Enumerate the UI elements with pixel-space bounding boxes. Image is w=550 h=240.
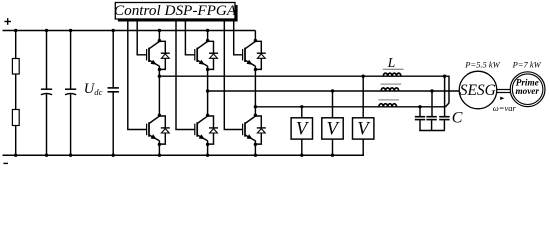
voltage sensor V1 tap wire <box>301 107 303 118</box>
voltage sensor V3 tap wire <box>362 76 364 118</box>
inductor L3 coil <box>379 104 397 107</box>
control box <box>115 3 235 20</box>
gate wire leg1 top IGBT <box>137 19 146 55</box>
voltage sensor V2 box <box>322 118 343 139</box>
inductor L2 core bar <box>381 83 402 85</box>
phase line C <box>255 106 445 108</box>
IGBT Q2 leg 2 top <box>195 42 208 70</box>
capacitor bank star bar <box>419 130 445 132</box>
L label <box>387 55 396 70</box>
omega=var label <box>493 103 517 113</box>
inductor L1 core bar <box>383 68 404 70</box>
leg 1 upper wire <box>158 31 160 41</box>
film capacitor 3 <box>108 87 119 89</box>
generator convergence bar <box>448 76 450 104</box>
svg-text:SESG: SESG <box>460 82 496 99</box>
excitation capacitor bank <box>415 76 450 130</box>
leg 2 junction dots <box>206 29 209 157</box>
shaft coupling <box>497 90 511 93</box>
diode D5 leg 2 bottom <box>208 116 218 144</box>
inductor L3 core bar <box>378 99 399 101</box>
P=5.5 kW label <box>464 60 500 70</box>
IGBT Q4 leg 1 bottom <box>147 116 160 144</box>
svg-text:C: C <box>452 109 463 126</box>
svg-text:P=5.5 kW: P=5.5 kW <box>464 60 500 70</box>
SESG label <box>460 82 496 99</box>
balancing resistor branch wire <box>15 31 17 156</box>
capacitor bank tap wire 1 <box>419 107 421 116</box>
junction dots resistor branch <box>14 29 17 157</box>
electrolytic capacitor branch 1 wire <box>46 31 48 89</box>
inductor L2 coil <box>381 88 399 91</box>
capacitor bank tap wire 2 <box>431 91 433 116</box>
svg-text:mover: mover <box>515 86 539 96</box>
voltage sensor V3 box <box>353 118 374 139</box>
filter inductors <box>378 69 403 107</box>
inductor L1 coil <box>383 73 401 76</box>
leg 1 lower wire <box>158 144 160 155</box>
SESG generator <box>459 71 497 109</box>
phase line C rise to generator <box>446 103 450 107</box>
phase line A <box>159 75 449 77</box>
excitation capacitor 3 <box>439 116 449 118</box>
voltage sensor V1 box <box>291 118 312 139</box>
IGBT Q3 leg 3 top <box>243 42 256 70</box>
voltage sensors <box>291 76 374 155</box>
voltage sensor V2 bottom wire <box>332 139 334 155</box>
C label <box>452 109 463 126</box>
excitation capacitor 2 <box>426 116 436 118</box>
film capacitor branch 3 wire <box>112 31 114 88</box>
gate wire leg1 bottom IGBT <box>128 19 147 130</box>
Udc label <box>84 81 103 97</box>
diode D4 leg 1 bottom <box>159 116 169 144</box>
junction dots capacitor 2 <box>69 29 72 157</box>
junction dots capacitor 1 <box>45 29 48 157</box>
DC bus negative rail <box>3 154 365 156</box>
prime mover label <box>515 77 539 96</box>
prime mover outer circle <box>510 72 545 107</box>
leg 3 junction dots <box>254 39 257 157</box>
voltage sensor V3 bottom wire <box>362 139 364 155</box>
electrolytic capacitor branch 2 wire <box>70 31 72 89</box>
junction dots capacitor 3 <box>112 29 115 157</box>
diode D2 leg 2 top <box>208 41 218 69</box>
control box title <box>114 2 237 19</box>
leg 3 upper wire <box>254 31 256 41</box>
leg 3 lower wire <box>254 144 256 155</box>
gate wire leg3 top IGBT <box>234 19 243 55</box>
minus terminal label <box>3 162 8 164</box>
P=7 kW label <box>512 60 542 70</box>
leg 3 middle wire <box>254 70 256 116</box>
svg-text:Control DSP-FPGA: Control DSP-FPGA <box>114 2 237 19</box>
electrolytic capacitor 1 <box>41 88 52 90</box>
leg 2 upper wire <box>207 31 209 41</box>
svg-text:ω=var: ω=var <box>493 103 517 113</box>
IGBT Q5 leg 2 bottom <box>195 116 208 144</box>
voltage sensor V1 bottom wire <box>301 139 303 155</box>
control box shadow <box>118 5 238 22</box>
rotation arrow <box>500 97 504 100</box>
resistor R1 <box>12 59 19 75</box>
voltage sensor labels <box>296 120 371 140</box>
leg 1 middle wire <box>158 70 160 116</box>
diode D3 leg 3 top <box>255 41 265 69</box>
electrolytic capacitor 2 <box>65 88 76 90</box>
excitation capacitor 1 <box>415 116 425 118</box>
svg-text:P=7 kW: P=7 kW <box>512 60 542 70</box>
leg 1 junction dots <box>158 29 161 157</box>
IGBT Q1 leg 1 top <box>147 42 160 70</box>
resistor R2 <box>12 110 19 126</box>
prime mover inner circle <box>512 74 543 105</box>
capacitor bank bottom stubs <box>419 120 421 130</box>
plus terminal label <box>4 18 11 25</box>
capacitor bank tap wire 3 <box>444 76 446 116</box>
leg 2 lower wire <box>207 144 209 155</box>
svg-text:L: L <box>387 55 396 70</box>
inverter legs <box>147 29 266 157</box>
diode D1 leg 1 top <box>159 41 169 69</box>
diode D6 leg 3 bottom <box>255 116 265 144</box>
leg 2 middle wire <box>207 70 209 116</box>
voltage sensor junction dots <box>300 75 365 157</box>
voltage sensor V2 tap wire <box>332 91 334 118</box>
gate wire leg2 top IGBT <box>185 19 194 55</box>
DC bus positive rail <box>3 30 256 32</box>
gate wire leg2 bottom IGBT <box>176 19 195 130</box>
capacitor bank junction dots <box>418 75 446 109</box>
IGBT Q6 leg 3 bottom <box>243 116 256 144</box>
phase line B <box>208 90 460 92</box>
gate wire leg3 bottom IGBT <box>224 19 243 130</box>
